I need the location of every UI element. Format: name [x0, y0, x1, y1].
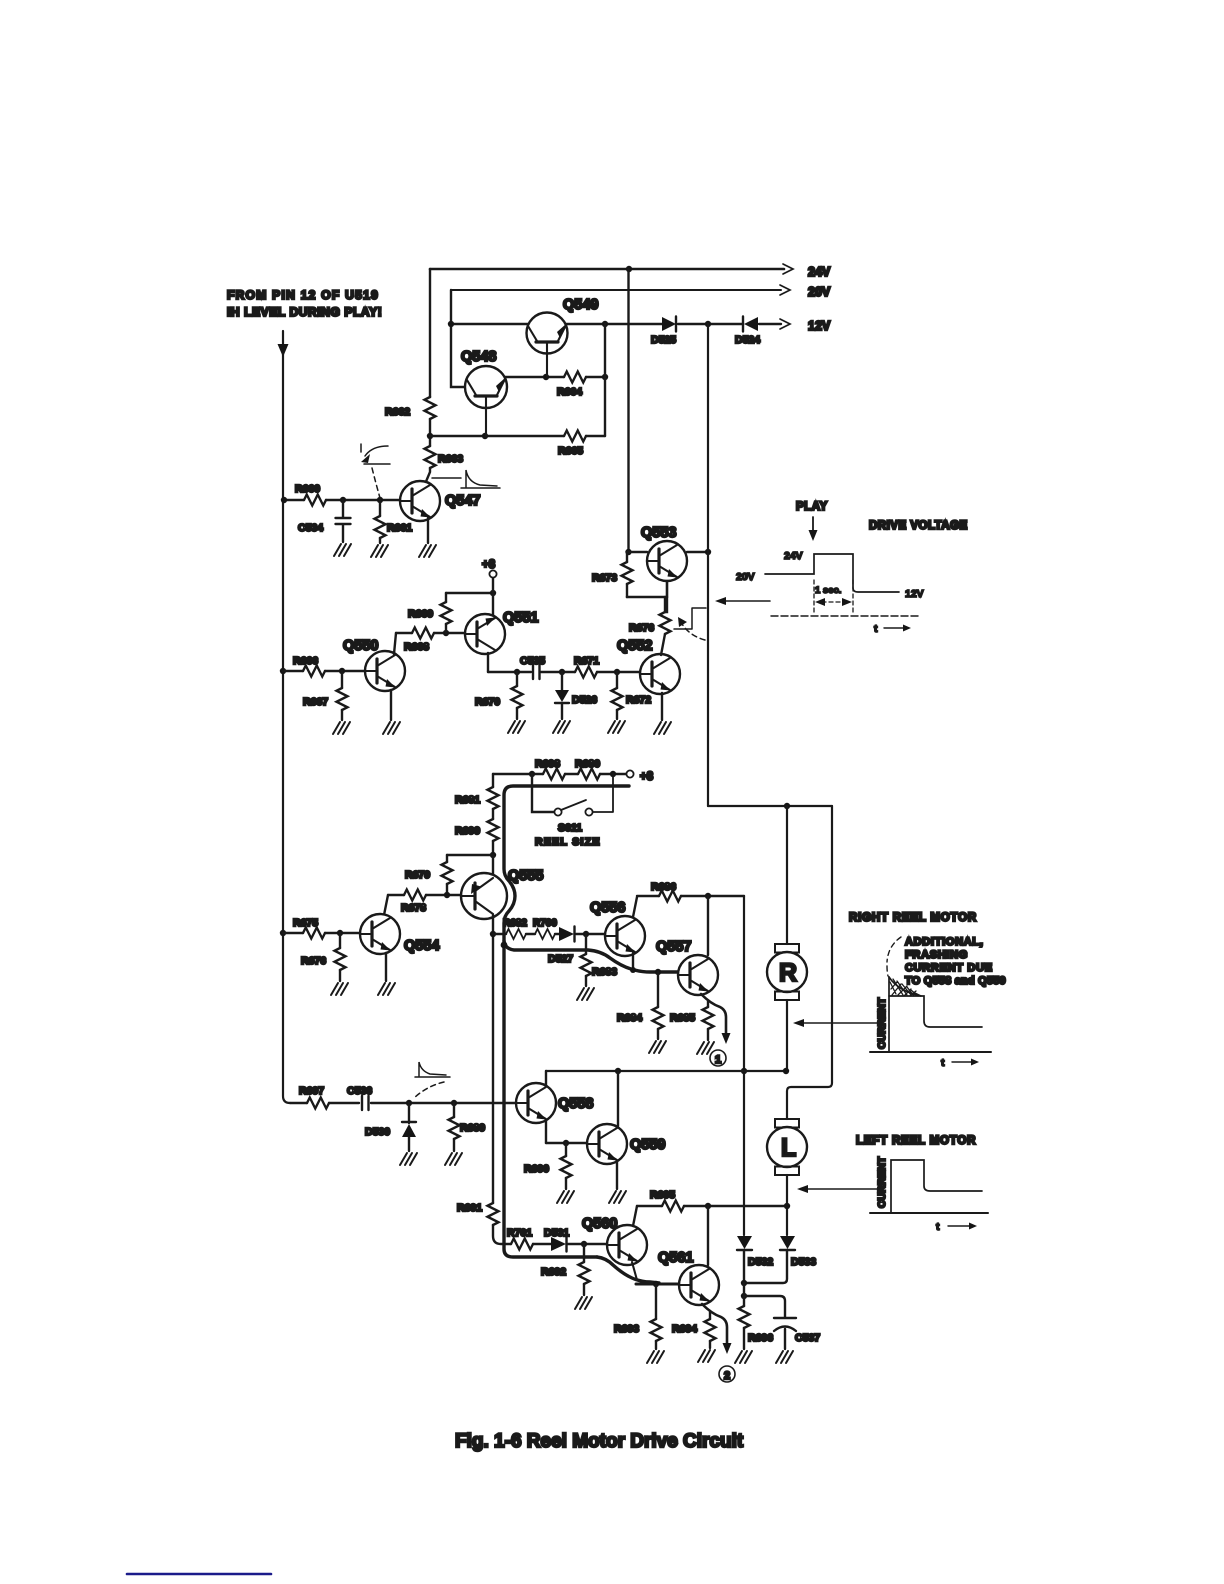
svg-text:+8: +8 [482, 559, 496, 571]
ground R692 [575, 1297, 592, 1309]
ground Q552 emitter [654, 722, 671, 734]
resistor R679 [405, 855, 453, 895]
node R684 tap [655, 969, 661, 975]
wire R686 node down to reel line [743, 896, 745, 1235]
svg-text:L: L [781, 1134, 796, 1162]
wire Q561 emitter arc to node 2 [702, 1304, 727, 1343]
wire Q558 base row y=1103 [290, 1102, 515, 1104]
node Q553 base right [705, 549, 711, 555]
wire R668 row [396, 632, 465, 634]
L current waveform [870, 1160, 988, 1233]
svg-text:R689: R689 [460, 1122, 485, 1134]
capacitor C537 [744, 1296, 820, 1349]
node 24V junction [626, 266, 632, 272]
svg-text:R696: R696 [748, 1332, 773, 1344]
svg-text:Q547: Q547 [445, 493, 480, 509]
svg-text:t: t [874, 623, 878, 635]
svg-text:D531: D531 [544, 1227, 569, 1239]
ground R696 [735, 1351, 752, 1363]
wire 24V rail [430, 268, 784, 271]
svg-text:LEFT REEL MOTOR: LEFT REEL MOTOR [856, 1135, 976, 1147]
svg-text:R672: R672 [626, 694, 651, 706]
resistor R675 [293, 917, 325, 939]
svg-text:Q549: Q549 [563, 297, 598, 313]
node Q559 collector top [615, 1068, 621, 1074]
svg-text:24V: 24V [808, 265, 831, 279]
diode D525 [662, 317, 676, 331]
sketch step annotation near Q547 base [361, 444, 390, 498]
node D532/D533 join [741, 1280, 747, 1286]
svg-text:FRASHING: FRASHING [905, 949, 968, 961]
svg-text:Q553: Q553 [641, 525, 676, 541]
resistor R666 [293, 655, 325, 677]
svg-text:R684: R684 [617, 1012, 642, 1024]
wire R motor top lead [786, 806, 788, 944]
wire Q553 base line [629, 551, 709, 553]
resistor R660 [295, 483, 326, 506]
wire thin emitter chain down [492, 934, 494, 1203]
annotation arrow to R motor [804, 1022, 878, 1024]
transistor Q555 [461, 873, 507, 919]
svg-text:R678: R678 [401, 902, 426, 914]
svg-text:R676: R676 [301, 955, 326, 967]
wire Q552 emitter [661, 693, 663, 720]
node R672 tap [614, 669, 620, 675]
node Q556 emitter join [630, 967, 636, 973]
svg-text:R697: R697 [299, 1085, 324, 1097]
node L motor bottom [784, 1203, 790, 1209]
wire Q557 emitter arc to node 1 [701, 994, 726, 1033]
node R664 right [602, 374, 608, 380]
svg-text:D525: D525 [651, 334, 676, 346]
ground C534 [334, 544, 351, 556]
wire +8 node to Q551 collector [492, 593, 494, 616]
svg-text:R661: R661 [387, 522, 412, 534]
wire Q550 collector to R668 [394, 633, 396, 654]
svg-text:Q555: Q555 [508, 868, 543, 884]
svg-text:R698: R698 [535, 758, 560, 770]
svg-text:R692: R692 [541, 1266, 566, 1278]
wire Q556 emitter to thick line [632, 953, 634, 970]
svg-text:Q559: Q559 [630, 1137, 665, 1153]
node D530 tap [406, 1100, 412, 1106]
sketch dashed curl to peak [887, 937, 901, 976]
svg-text:DRIVE VOLTAGE: DRIVE VOLTAGE [869, 520, 968, 532]
wire R682 row y=934 [493, 933, 606, 935]
wire Q547 emitter [427, 518, 429, 543]
node C537 tap [741, 1293, 747, 1299]
wire L motor bottom lead [786, 1175, 788, 1235]
wire R motor bottom lead [786, 1000, 788, 1071]
node switch left top [529, 771, 535, 777]
resistor R685 [670, 1001, 714, 1040]
resistor R684 [617, 972, 664, 1039]
svg-text:D533: D533 [791, 1256, 816, 1268]
resistor R668 [404, 628, 434, 654]
resistor R681 [455, 774, 499, 809]
ground R685 [697, 1042, 714, 1054]
wire Q558 collector [545, 1071, 547, 1085]
wire Q560 emitter [632, 1262, 637, 1280]
svg-text:R670: R670 [475, 696, 500, 708]
node R669 bottom [443, 630, 449, 636]
node Q549 emitter join [543, 374, 549, 380]
svg-text:2: 2 [724, 1370, 730, 1382]
resistor R664 [557, 372, 586, 399]
node rail/Q554 base [280, 930, 286, 936]
svg-text:R686: R686 [651, 881, 676, 893]
transistor Q556 [605, 916, 645, 956]
wire R678 row / Q555 base [388, 894, 461, 896]
resistor R690 [524, 1143, 572, 1189]
node 12V rail start [448, 321, 454, 327]
diode D527 [548, 927, 575, 966]
wire Q553 emitter / R673 join [627, 581, 667, 597]
svg-text:R667: R667 [303, 696, 328, 708]
svg-text:REEL SIZE: REEL SIZE [535, 836, 601, 848]
wire emitter to R676 [665, 597, 667, 612]
svg-text:Q556: Q556 [590, 900, 625, 916]
ground C537 [776, 1351, 793, 1363]
resistor R665 [558, 431, 586, 458]
svg-text:R701: R701 [507, 1227, 532, 1239]
capacitor C536 [347, 1085, 372, 1110]
ground Q554 emitter [378, 983, 395, 995]
resistor R701 [507, 1227, 533, 1250]
svg-text:R683: R683 [592, 966, 617, 978]
svg-text:C537: C537 [795, 1332, 820, 1344]
svg-text:R694: R694 [672, 1323, 697, 1335]
resistor R696 [739, 1283, 774, 1349]
resistor R669 [408, 593, 452, 633]
node R661 tap [377, 497, 383, 503]
wire Q558 emitter [545, 1121, 547, 1143]
drive voltage waveform [736, 550, 924, 635]
resistor R672 [612, 672, 652, 719]
capacitor C534 [298, 500, 351, 542]
wire Q555 collector [492, 855, 494, 874]
wire R669 top to +8 [446, 592, 493, 594]
terminal +8 lower [626, 770, 633, 777]
resistor R697 [299, 1085, 329, 1109]
wire Q551 emitter down [487, 653, 489, 672]
resistor R661 [375, 500, 413, 543]
transistor Q557 [678, 955, 718, 995]
resistor R689 [449, 1103, 486, 1151]
svg-text:Q554: Q554 [404, 938, 439, 954]
wire +8 feed row y=774 [493, 773, 626, 775]
svg-text:R671: R671 [574, 655, 599, 667]
switch S611 [532, 774, 613, 848]
svg-text:Q561: Q561 [658, 1250, 693, 1266]
wire Q554 emitter [385, 953, 387, 981]
svg-text:D532: D532 [748, 1256, 773, 1268]
svg-text:D526: D526 [572, 694, 597, 706]
ground R693 [647, 1351, 664, 1363]
svg-text:R690: R690 [524, 1163, 549, 1175]
PLAY down arrow [812, 517, 814, 530]
sketch decay pulse annotation at Q547 collector [432, 470, 500, 488]
svg-text:R668: R668 [404, 641, 429, 653]
diode D530 [365, 1103, 416, 1151]
wire left input rail [283, 331, 290, 1103]
resistor R671 [574, 655, 599, 678]
thick drive line A: corner + around Q555 + down [504, 786, 629, 1257]
ground R670 [508, 721, 525, 733]
node R683 tap [583, 931, 589, 937]
ground R667 [333, 722, 350, 734]
node R667 tap [339, 668, 345, 674]
svg-text:20V: 20V [808, 285, 831, 299]
wire R662 to node [429, 419, 431, 446]
sketch step annotation near Q552 [674, 608, 706, 640]
wire right vertical 12V to emitter bus [604, 324, 606, 436]
diode D526 [555, 672, 597, 719]
wire 12V drop corner to motors [708, 805, 832, 807]
transistor Q559 [587, 1124, 627, 1164]
svg-text:t: t [936, 1221, 940, 1233]
node R692 tap [581, 1241, 587, 1247]
svg-text:R662: R662 [385, 406, 410, 418]
transistor Q547 [400, 481, 440, 521]
transistor Q558 [516, 1083, 556, 1123]
wire Q561 collector [707, 1206, 709, 1265]
node R662/R663 [427, 433, 433, 439]
svg-text:R669: R669 [408, 608, 433, 620]
svg-text:CURRENT DUE: CURRENT DUE [905, 962, 993, 974]
node R693 tap [653, 1281, 659, 1287]
wire thin line corner to R701 [493, 1225, 511, 1244]
svg-text:R699: R699 [455, 825, 480, 837]
diode D533 [744, 1236, 816, 1283]
svg-text:Q548: Q548 [461, 349, 496, 365]
svg-text:R682: R682 [503, 918, 527, 929]
svg-text:C535: C535 [520, 655, 545, 667]
resistor R692 [541, 1244, 590, 1295]
node R motor feed [784, 803, 790, 809]
resistor R678 [401, 890, 426, 915]
ground R694 [698, 1350, 715, 1362]
node 12V junction [705, 321, 711, 327]
node D526 tap [559, 669, 565, 675]
svg-text:R: R [779, 959, 797, 987]
node R676b tap [337, 930, 343, 936]
node Q553 base left [625, 549, 631, 555]
resistor R662 [385, 397, 436, 419]
resistor R676 lower [301, 933, 346, 981]
wire Q554 collector [384, 895, 388, 915]
node Q548 emitter on bus [482, 433, 488, 439]
svg-text:R680: R680 [575, 758, 600, 770]
node rail/Q550 base [280, 668, 286, 674]
resistor R676 above Q552 [629, 597, 671, 655]
svg-text:C534: C534 [298, 522, 323, 534]
node Q557 collector top [705, 893, 711, 899]
resistor R686 [651, 881, 681, 902]
wire Q560 collector [633, 1206, 637, 1226]
wire Q550 emitter [390, 690, 392, 720]
wire R701 to D531 [533, 1243, 607, 1245]
svg-text:D527: D527 [548, 953, 573, 965]
transistor Q553 [647, 541, 687, 581]
svg-text:Q551: Q551 [503, 610, 538, 626]
node R699 bottom [490, 852, 496, 858]
wire Q555 emitter [492, 915, 494, 934]
node on collector line [741, 1068, 747, 1074]
ground R690 [557, 1191, 574, 1203]
svg-text:ADDITIONAL,: ADDITIONAL, [905, 936, 984, 948]
node rail/Q547 base [281, 497, 287, 503]
svg-text:1 sec.: 1 sec. [815, 585, 841, 596]
svg-text:+8: +8 [640, 771, 654, 783]
resistor R670 [475, 672, 523, 719]
resistor R663 [425, 446, 464, 468]
svg-text:Q558: Q558 [558, 1096, 593, 1112]
svg-text:FROM PIN 12 OF U519: FROM PIN 12 OF U519 [227, 288, 379, 302]
svg-text:1: 1 [715, 1054, 721, 1066]
ground R661 [371, 545, 388, 557]
svg-text:Fig. 1-6 Reel Motor Drive Ci: Fig. 1-6 Reel Motor Drive Circuit [455, 1431, 744, 1452]
svg-text:R673: R673 [592, 572, 617, 584]
node switch right top [610, 771, 616, 777]
wire Q561 base line [636, 1283, 679, 1286]
svg-text:R665: R665 [558, 445, 583, 457]
node R690 tap [563, 1140, 569, 1146]
annotation arrow to L motor [808, 1188, 878, 1190]
transistor Q549 [527, 297, 599, 377]
footer rule (navy) [127, 1573, 271, 1576]
node 1 marker [710, 1050, 726, 1066]
node C534 tap [340, 497, 346, 503]
resistor R695 [650, 1189, 684, 1212]
svg-text:D530: D530 [365, 1126, 390, 1138]
svg-text:R666: R666 [293, 655, 318, 667]
ground Q559 emitter [609, 1191, 626, 1203]
svg-text:RIGHT REEL MOTOR: RIGHT REEL MOTOR [849, 912, 977, 924]
ground Q547 emitter [419, 545, 436, 557]
node R motor bottom [783, 1068, 789, 1074]
node R682 row tap [490, 931, 496, 937]
wire emitter row y=672 [488, 671, 640, 673]
wire R686 row y=896 [637, 895, 744, 897]
ground R683 [577, 988, 594, 1000]
transistor Q560 [607, 1225, 647, 1265]
wire Q549/Q548 collector row y=377 [503, 376, 605, 378]
svg-text:20V: 20V [736, 571, 755, 583]
svg-text:Q550: Q550 [343, 638, 378, 654]
node R670 tap [514, 669, 520, 675]
transistor Q561 [679, 1265, 719, 1305]
sketch pulse annotation near Q558 [414, 1062, 450, 1098]
wire 24V drop to Q553 [627, 269, 629, 552]
svg-text:R693: R693 [614, 1323, 639, 1335]
input arrow on rail [278, 344, 289, 357]
resistor R682 [503, 918, 527, 939]
svg-text:12V: 12V [808, 319, 831, 333]
svg-text:R679: R679 [405, 869, 430, 881]
svg-text:R681: R681 [455, 794, 480, 806]
resistor R698 [535, 758, 565, 780]
wire Q547 base line [284, 499, 400, 501]
20V arrow [780, 285, 790, 295]
node R689 tap [451, 1100, 457, 1106]
wire node to R679 top [447, 854, 493, 856]
motor R [767, 944, 807, 1000]
wire L motor feed [787, 806, 832, 1119]
svg-text:IH LEVEL DURING PLAY!: IH LEVEL DURING PLAY! [227, 305, 382, 319]
wire 20V rail [451, 289, 781, 291]
node thick branch [501, 942, 508, 949]
wire Q554 base line [283, 932, 360, 934]
transistor Q548 [461, 349, 507, 436]
ground D526 [553, 721, 570, 733]
diode D531 [544, 1227, 569, 1252]
resistor R667 [303, 671, 348, 720]
resistor R700 [533, 918, 557, 939]
wire 20V drop to Q548 base [451, 290, 464, 387]
svg-text:R685: R685 [670, 1012, 695, 1024]
annotation arrow to circuit (drive voltage) [726, 600, 770, 602]
svg-text:R663: R663 [438, 453, 463, 465]
svg-text:Q552: Q552 [617, 638, 652, 654]
wire left drop from 24V rail [429, 269, 431, 397]
transistor Q554 [360, 914, 400, 954]
wire R695 row y=1206 [637, 1205, 787, 1207]
svg-text:C536: C536 [347, 1085, 372, 1097]
wire Q559 emitter [616, 1162, 618, 1189]
svg-text:R675: R675 [293, 917, 318, 929]
ground Q550 emitter [383, 722, 400, 734]
node +8/collector [490, 590, 496, 596]
wire Q559 base line [546, 1142, 587, 1144]
thick drive line B arc to Q561 base [597, 1257, 659, 1283]
svg-text:R691: R691 [457, 1202, 482, 1214]
node Q561 collector top [705, 1203, 711, 1209]
svg-text:R700: R700 [533, 918, 557, 929]
ground R672 [608, 721, 625, 733]
ground D530 [400, 1153, 417, 1165]
resistor R683 [581, 934, 618, 986]
transistor Q550 [365, 651, 405, 691]
R current waveform [870, 977, 991, 1069]
diode D532 [737, 1236, 773, 1283]
wire 12V rail [451, 323, 781, 325]
svg-text:D524: D524 [735, 334, 760, 346]
resistor R691 [457, 1202, 499, 1225]
resistor R680 [575, 758, 600, 780]
svg-text:R664: R664 [557, 386, 582, 398]
wire emitter bus y=436 [430, 435, 605, 437]
svg-text:S611: S611 [558, 822, 582, 834]
ground R676 lower [331, 983, 348, 995]
resistor R673 [592, 552, 633, 597]
transistor Q551 [465, 614, 505, 654]
wire Q557 collector [707, 896, 709, 955]
svg-text:CURRENT: CURRENT [876, 1156, 888, 1208]
resistor R693 [614, 1284, 662, 1349]
wire Q559 collector [617, 1071, 619, 1126]
thick drive branch to Q557 base [504, 941, 679, 972]
terminal +8 upper [489, 570, 496, 577]
node R679 bottom [444, 892, 450, 898]
svg-text:Q560: Q560 [582, 1216, 617, 1232]
ground R684 [649, 1041, 666, 1053]
svg-text:12V: 12V [905, 588, 924, 600]
wire Q556 collector [633, 897, 637, 917]
resistor R699 [455, 809, 499, 855]
wire node1 row y=1071 [546, 1070, 786, 1072]
svg-text:R676: R676 [629, 622, 654, 634]
